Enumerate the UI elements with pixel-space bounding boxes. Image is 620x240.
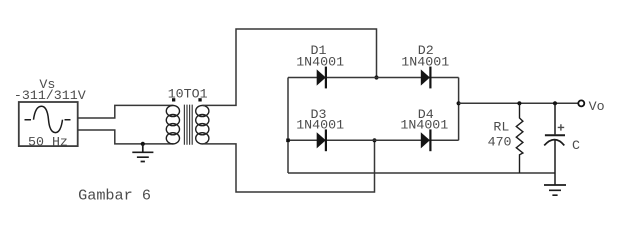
transformer T1 primary winding xyxy=(166,105,179,143)
diode D4 xyxy=(421,132,430,148)
wire source bottom to transformer primary bottom xyxy=(78,130,174,144)
svg-text:-311/311V: -311/311V xyxy=(14,88,86,103)
ground (primary side) xyxy=(132,144,153,162)
junction node B (D3-D4) xyxy=(372,138,376,142)
wire bridge top row xyxy=(288,77,459,79)
transformer phase dot left xyxy=(172,98,175,101)
wire bottom rail (negative) xyxy=(288,172,555,174)
svg-text:1N4001: 1N4001 xyxy=(400,118,448,133)
junction node A (D1-D2) xyxy=(374,75,378,79)
capacitor C xyxy=(554,103,556,134)
svg-text:1N4001: 1N4001 xyxy=(296,54,344,69)
svg-text:1N4001: 1N4001 xyxy=(296,118,344,133)
AC source V1 box xyxy=(19,102,78,146)
AC source sine symbol xyxy=(25,106,71,132)
wire bridge left rail xyxy=(287,78,289,174)
transformer T1 secondary winding xyxy=(196,105,209,143)
transformer T1 core xyxy=(184,105,192,145)
terminal Vo open circle xyxy=(578,100,584,106)
junction right rail / output xyxy=(457,101,461,105)
svg-text:RL: RL xyxy=(493,120,509,135)
wire secondary bottom to bridge node B xyxy=(202,140,374,192)
ground (output side) xyxy=(544,185,566,195)
capacitor plus sign xyxy=(558,124,565,130)
diode D1 xyxy=(317,69,326,85)
wire bridge bottom row xyxy=(288,139,459,141)
transformer phase dot right xyxy=(198,98,201,101)
wire secondary top to bridge node A xyxy=(202,29,376,105)
resistor RL xyxy=(516,103,523,173)
svg-text:Gambar 6: Gambar 6 xyxy=(78,186,151,204)
junction C top xyxy=(553,101,557,105)
svg-text:Vo: Vo xyxy=(589,99,605,114)
junction left rail / bottom row xyxy=(286,139,290,143)
svg-text:470: 470 xyxy=(488,134,512,149)
junction on primary bottom wire xyxy=(141,142,145,146)
wire output node to Vo terminal xyxy=(459,102,578,104)
diode D2 xyxy=(421,69,430,85)
junction RL top xyxy=(517,101,521,105)
wire source top to transformer primary top xyxy=(78,105,174,118)
svg-text:C: C xyxy=(572,138,580,153)
svg-text:50 Hz: 50 Hz xyxy=(28,135,68,150)
wire bridge right rail xyxy=(458,78,460,141)
svg-text:1N4001: 1N4001 xyxy=(401,54,449,69)
diode D3 xyxy=(317,132,326,148)
